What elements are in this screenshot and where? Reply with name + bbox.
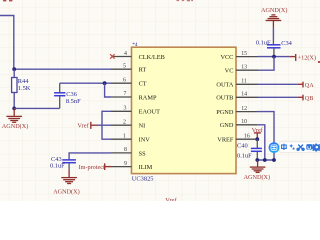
svg-text:16: 16 — [244, 134, 250, 140]
svg-text:4: 4 — [124, 51, 127, 57]
pin 8 SS — [111, 147, 146, 157]
svg-text:15: 15 — [241, 51, 247, 57]
svg-text:Vref: Vref — [165, 197, 177, 201]
svg-text:GND: GND — [220, 122, 234, 129]
svg-text:ILIM: ILIM — [139, 164, 153, 171]
pin 11 OUTA — [216, 79, 258, 89]
svg-text:EAOUT: EAOUT — [139, 109, 160, 116]
wire: ground bus under C40 — [257, 159, 274, 161]
svg-text:QB: QB — [305, 95, 314, 102]
pin 3 EAOUT — [111, 106, 160, 116]
svg-text:3: 3 — [124, 106, 127, 112]
pin 2 NI — [111, 119, 145, 129]
top edge text remnants left — [3, 0, 12, 1]
svg-text:SS: SS — [139, 150, 147, 157]
node: junction CT/RAMP — [103, 81, 107, 85]
capacitor C43 — [50, 156, 76, 170]
svg-text:0.1uF: 0.1uF — [237, 152, 252, 159]
svg-text:12: 12 — [241, 106, 247, 112]
wire: Vref stub to pin 2 — [98, 124, 111, 126]
svg-text:QA: QA — [305, 82, 314, 89]
node: bus junction middle — [263, 158, 267, 162]
node: junction at R44 bottom / C36 return — [12, 107, 16, 111]
port +12(X) — [289, 54, 316, 61]
svg-text:UC3825: UC3825 — [132, 175, 154, 182]
toolbar: white bar — [279, 142, 320, 152]
node: junction at R44 top — [12, 67, 16, 71]
ground AGND(X) bottom right — [244, 160, 270, 181]
svg-text:10: 10 — [241, 119, 247, 125]
svg-text:5: 5 — [123, 63, 126, 69]
wire: ground to C34 — [272, 28, 274, 41]
stray red mark right edge — [318, 61, 320, 63]
svg-text:AGND(X): AGND(X) — [53, 188, 79, 195]
pin 10 GND — [220, 119, 257, 129]
wire: PGND down to ground bus — [257, 112, 274, 160]
pin 15 VCC — [220, 51, 257, 61]
svg-text:CT: CT — [139, 81, 147, 88]
wire: CT net from C36 top to pin 6 — [60, 82, 111, 84]
ground AGND(X) below R44 — [2, 108, 28, 129]
svg-text:PGND: PGND — [216, 109, 234, 116]
svg-text:2: 2 — [123, 119, 126, 125]
svg-text:6: 6 — [123, 77, 126, 83]
toolbar: capture icon — [306, 144, 312, 150]
pin 5 RT — [111, 63, 146, 73]
no-connect X on pin 4 — [110, 54, 115, 59]
pin 1 INV — [111, 133, 150, 143]
svg-text:CLK/LEB: CLK/LEB — [139, 54, 165, 61]
toolbar: gear icon — [311, 144, 320, 152]
svg-text:OUTA: OUTA — [216, 82, 233, 89]
svg-text:RAMP: RAMP — [139, 94, 157, 101]
toolbar: scissors icon — [297, 145, 304, 151]
wire: C36 bottom return to junction — [14, 107, 60, 109]
pin 14 OUTB — [216, 92, 258, 102]
svg-text:OUTB: OUTB — [216, 95, 233, 102]
wire: EAOUT to INV feedback — [102, 111, 111, 139]
pin 6 CT — [111, 77, 147, 87]
svg-text:INV: INV — [139, 137, 151, 144]
svg-text:Vref: Vref — [77, 122, 89, 129]
svg-text:AGND(X): AGND(X) — [244, 174, 270, 181]
svg-text:AGND(X): AGND(X) — [2, 123, 28, 130]
svg-text:1: 1 — [123, 133, 126, 139]
pin 4 CLK/LEB — [113, 51, 165, 61]
port Im-protect to ILIM — [79, 163, 111, 171]
svg-text:9: 9 — [124, 161, 127, 167]
svg-text:*4: *4 — [132, 42, 138, 48]
pin 16 VREF — [217, 134, 257, 144]
wire: GND down to ground bus — [257, 125, 265, 160]
wire: VCC net to +12(X) — [258, 56, 290, 58]
capacitor C40 — [237, 139, 262, 160]
pin 13 VC — [225, 64, 259, 74]
wire: VC up to VCC node — [259, 57, 274, 71]
pin 9 ILIM — [111, 161, 153, 171]
svg-text:RT: RT — [139, 67, 147, 74]
port Vref to NI — [77, 122, 98, 130]
svg-text:1.5K: 1.5K — [18, 85, 31, 92]
svg-text:C40: C40 — [237, 142, 248, 149]
port QB — [297, 95, 313, 102]
wire: OUTB to QB — [258, 96, 297, 98]
node: bus junction left — [255, 158, 259, 162]
svg-text:8: 8 — [124, 147, 127, 153]
svg-text:11: 11 — [241, 79, 247, 85]
pin 12 PGND — [216, 106, 257, 116]
port QA — [297, 82, 314, 89]
wire: SS net to C43 — [69, 153, 111, 160]
toolbar: zhong icon — [282, 144, 287, 150]
wire: CT junction down to RAMP pin 7 — [105, 83, 111, 97]
svg-text:8.5nF: 8.5nF — [66, 98, 81, 105]
wire: OUTA to QA — [258, 83, 297, 85]
svg-text:NI: NI — [139, 123, 146, 130]
node: junction VCC/C34/VC — [272, 55, 276, 59]
svg-text:VCC: VCC — [220, 54, 233, 61]
ground AGND(X) above C34 — [261, 7, 287, 27]
svg-text:AGND(X): AGND(X) — [261, 7, 287, 14]
wire: top-left net entering from left edge — [0, 16, 14, 70]
svg-text:VREF: VREF — [217, 137, 234, 144]
svg-text:13: 13 — [241, 64, 247, 70]
op-amp IC U? body UC3825 — [132, 42, 237, 183]
ground AGND(X) below C43 — [53, 170, 79, 195]
resistor R44 — [12, 78, 31, 93]
svg-text:0.1uF: 0.1uF — [50, 163, 65, 170]
capacitor C36 — [54, 83, 81, 108]
pin 7 RAMP — [111, 91, 157, 101]
svg-text:+12(X): +12(X) — [298, 54, 316, 61]
wire: RT net horizontal to pin 5 — [14, 68, 111, 70]
svg-text:Im-protect: Im-protect — [79, 164, 105, 171]
node: bus junction right — [272, 158, 276, 162]
svg-text:14: 14 — [241, 92, 247, 98]
svg-text:7: 7 — [124, 91, 127, 97]
wire: junction to R44 top lead — [13, 69, 15, 77]
toolbar: blue circle button — [269, 142, 280, 153]
top edge text remnants middle — [177, 0, 194, 1]
node: junction VREF pin — [255, 137, 259, 141]
svg-text:VC: VC — [225, 68, 234, 75]
wire: R44 bottom lead to ground junction — [13, 93, 15, 109]
port Vref above VREF pin — [252, 127, 264, 139]
capacitor C34 — [256, 40, 293, 57]
toolbar: sparkle icon — [289, 144, 295, 150]
svg-text:C34: C34 — [281, 40, 292, 47]
